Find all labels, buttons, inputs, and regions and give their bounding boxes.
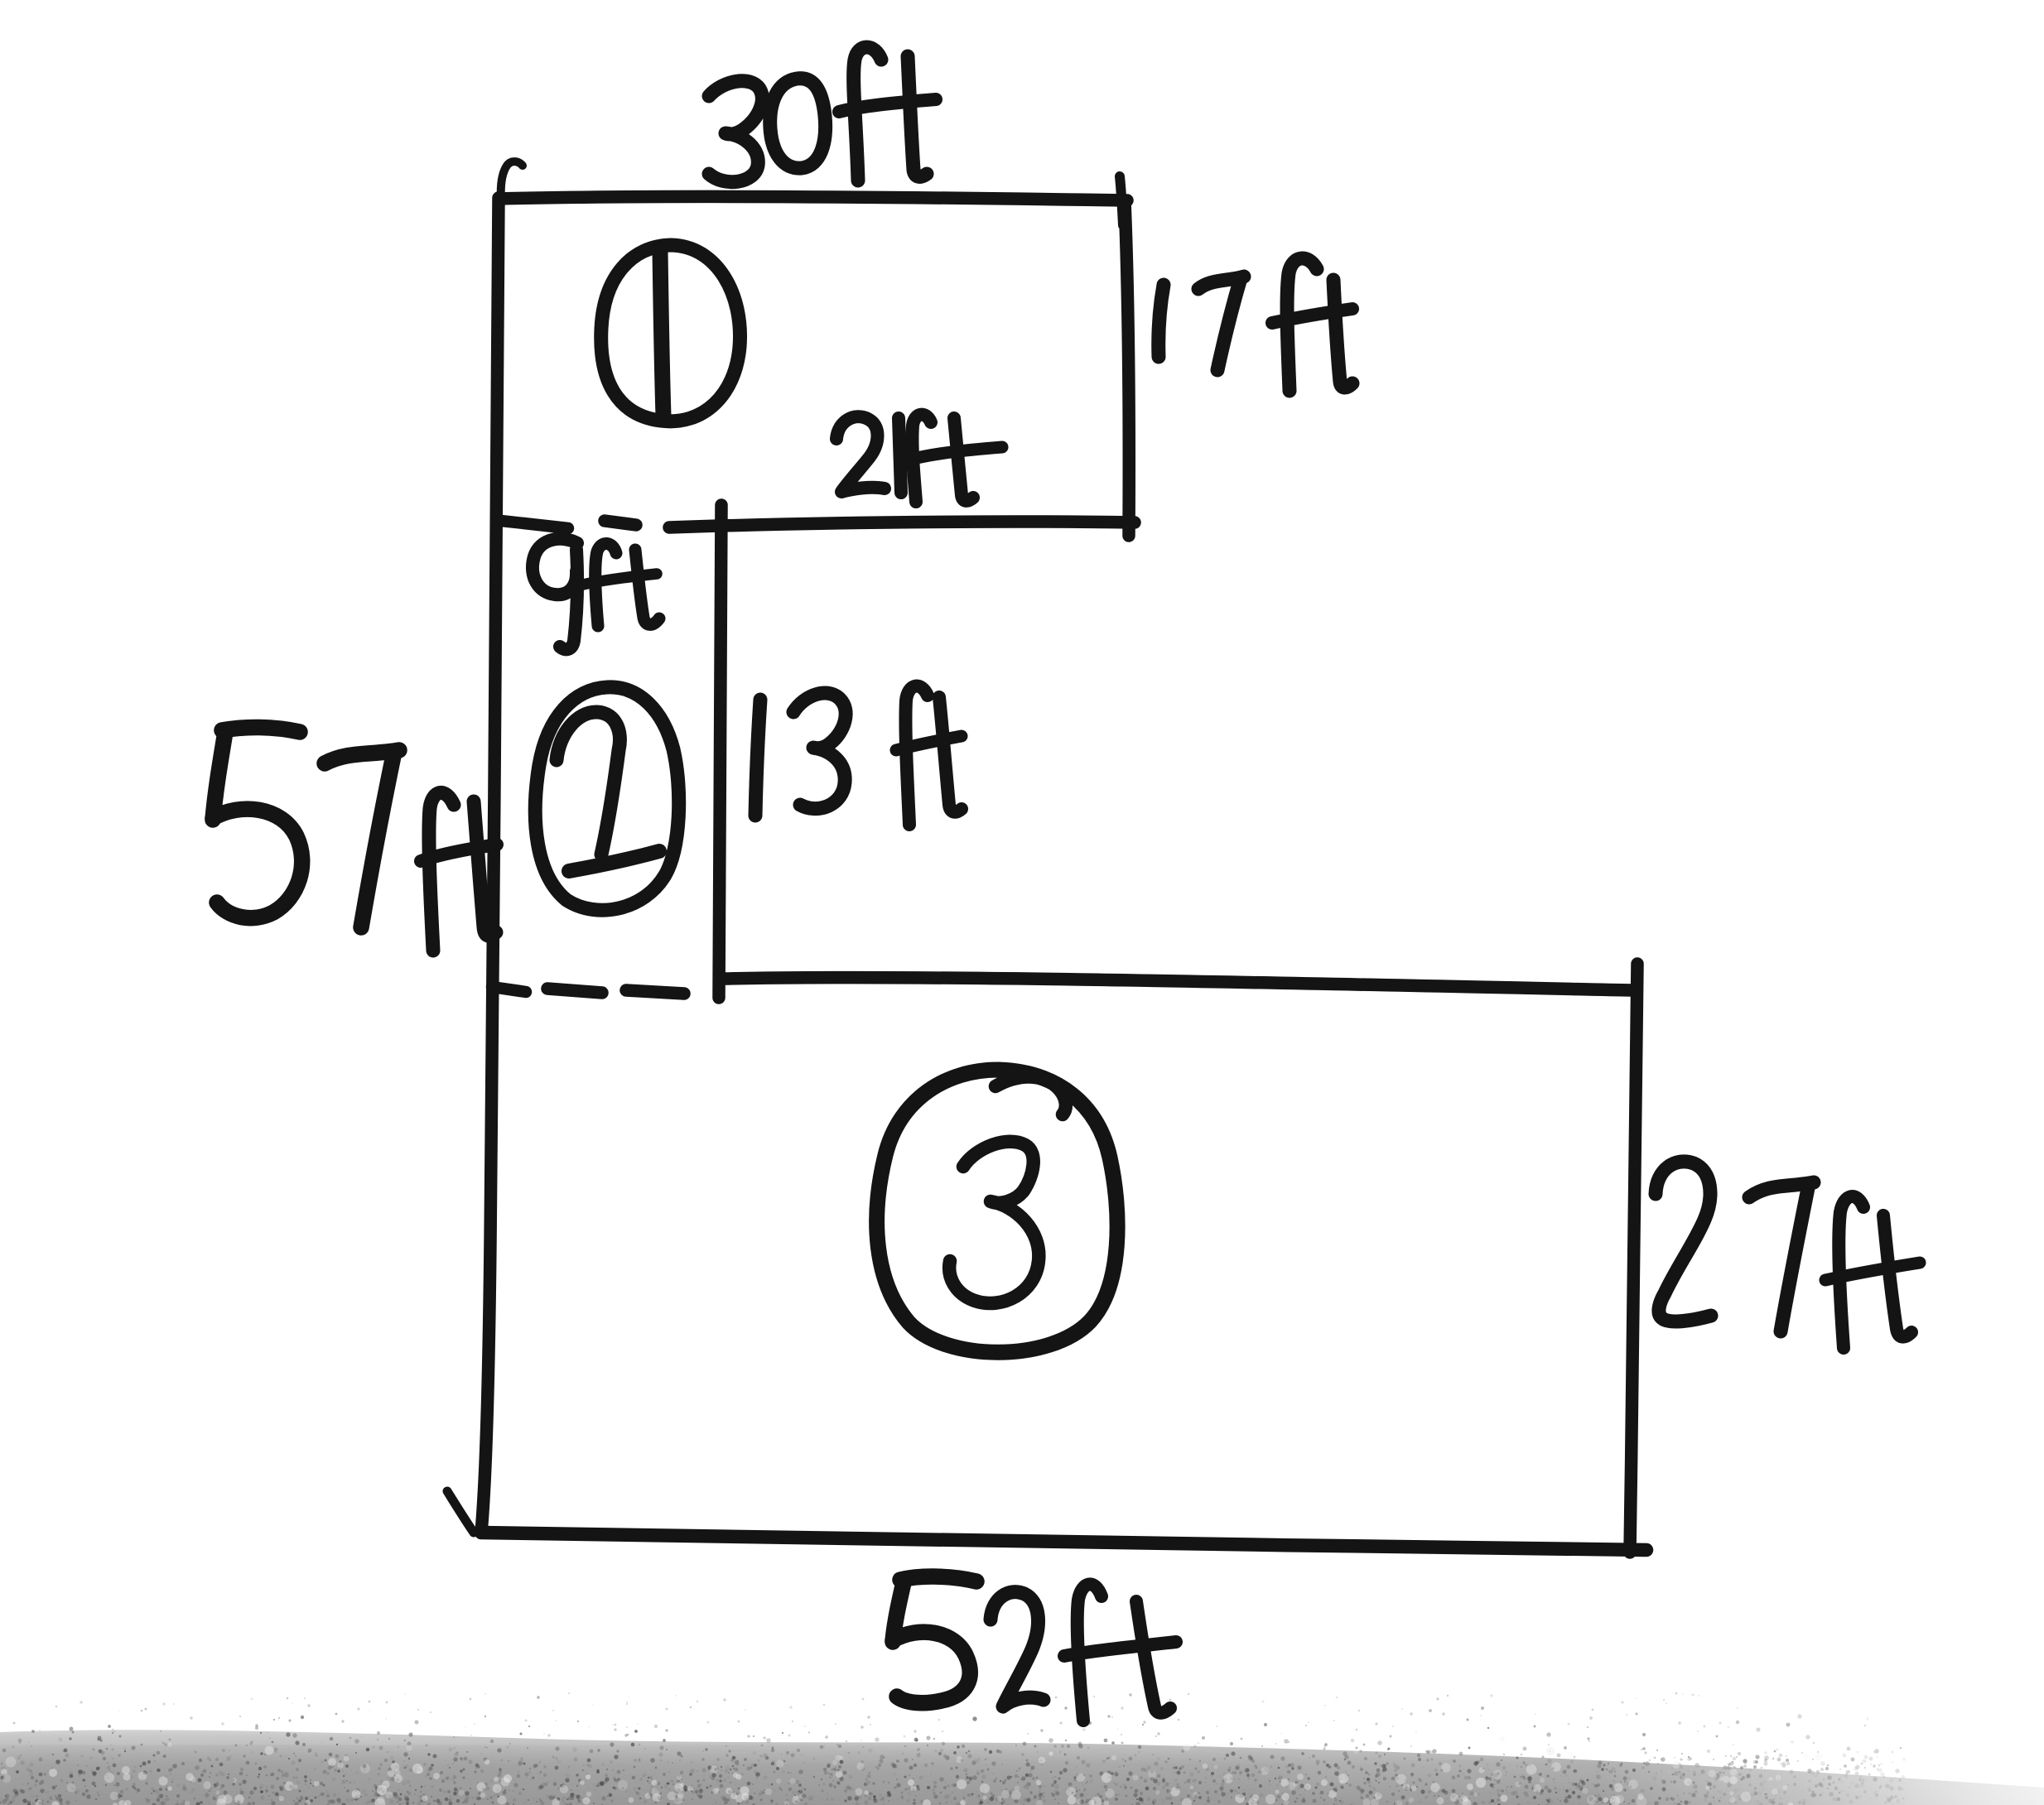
- tick at top-left corner: [501, 161, 523, 200]
- label 52ft: [900, 1576, 976, 1581]
- page-bottom scan shadow: [0, 1692, 2044, 1805]
- dashed hidden edge under region 2: dash b: [626, 990, 684, 994]
- rectangle 1 bottom edge solid part (21 ft): [669, 522, 1135, 527]
- circled number 3 badge: [877, 1070, 1117, 1352]
- label 27ft: [1656, 1162, 1711, 1321]
- label 13 ft: [755, 700, 760, 816]
- rectangle 3 bottom edge (52 ft): [481, 1533, 1646, 1550]
- dashed hidden edge under region 1: dash: [605, 521, 636, 525]
- dashed hidden edge under region 2: stub: [492, 987, 526, 992]
- label 21ft: [836, 416, 885, 492]
- circled number 2 badge: [535, 687, 678, 910]
- rectangle 2 right edge (13 ft): [719, 505, 721, 998]
- dashed hidden edge under region 1: stub: [501, 521, 568, 528]
- rectangle 1 top edge (30 ft): [499, 196, 1127, 200]
- dashed hidden edge under region 2: dash a: [547, 989, 602, 993]
- label 17ft: [1159, 285, 1164, 357]
- rectangle 3 top edge: [726, 978, 1632, 990]
- label 9ft: [533, 539, 577, 594]
- rectangle 1 right edge (17 ft): [1125, 201, 1129, 536]
- circled number 1 badge: [601, 245, 740, 421]
- left edge (57 ft side of figure): [481, 198, 499, 1533]
- tick at bottom-left corner: [447, 1491, 474, 1533]
- label 30ft: [709, 81, 762, 182]
- tick at right end of 30ft edge: [1120, 176, 1123, 225]
- label 57ft: [222, 727, 300, 732]
- rectangle 3 right edge (27 ft): [1630, 964, 1637, 1552]
